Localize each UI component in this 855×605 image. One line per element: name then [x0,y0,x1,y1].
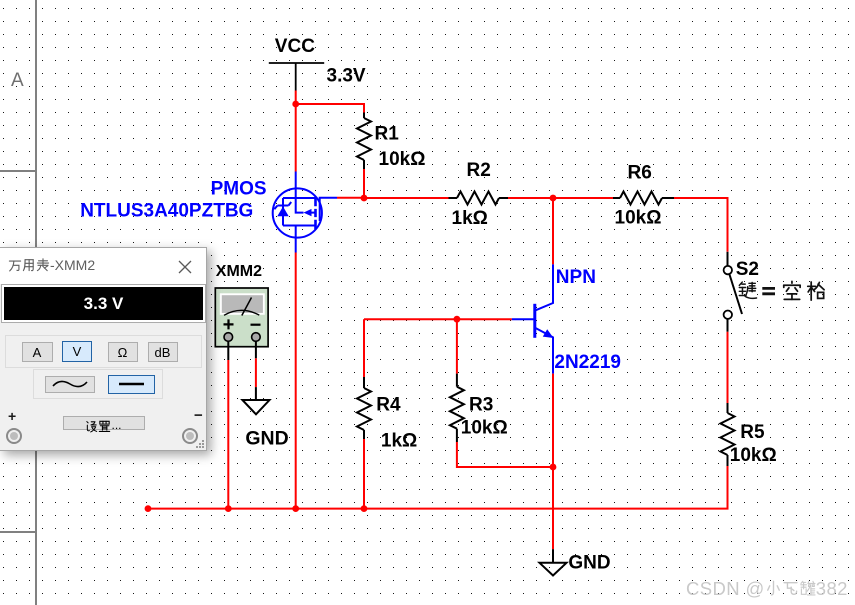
wire NPN collector to node N3 [552,198,554,264]
wire R1 bottom to node N2 [363,169,365,198]
svg-text:R6: R6 [628,162,652,183]
node N5 junction [550,464,557,471]
svg-text:3.3V: 3.3V [327,65,366,86]
resistor R6 [613,192,674,205]
wire R4 bottom to rail [363,439,365,509]
svg-text:10kΩ: 10kΩ [730,445,777,466]
wire node N1 to R1 top [296,104,364,113]
multimeter reading display [2,285,205,322]
node rail R4 [361,505,368,512]
svg-text:NPN: NPN [556,267,596,288]
resistor R5 [721,403,735,466]
wire node N1 down to PMOS source [295,104,297,172]
wire plus probe to rail [227,360,229,509]
wire R4 top [363,319,365,377]
button A [22,342,53,362]
minus terminal label [194,407,203,424]
node N4 junction R3 top [454,316,461,323]
svg-text:1kΩ: 1kΩ [452,208,488,229]
svg-text:R4: R4 [376,395,401,416]
switch S2 [724,252,742,332]
wire base net horizontal [364,318,512,320]
button V selected [62,341,92,362]
ground symbol bottom [540,549,567,575]
resistor R2 [449,192,509,205]
sheet border margin line [35,0,37,605]
wire minus probe to ground [255,358,257,387]
wire node N2 to R2 [364,197,449,199]
wire PMOS gate to node N2 [337,197,364,199]
svg-text:1kΩ: 1kΩ [381,431,417,452]
node N2 junction [361,195,368,202]
svg-text:10kΩ: 10kΩ [379,149,426,170]
svg-text:10kΩ: 10kΩ [615,207,662,228]
resize grip [195,439,204,448]
hidden defs for CJK glyph approximations [0,0,4,4]
svg-text:R3: R3 [469,395,493,416]
NPN emitter arrow [543,329,554,338]
wire PMOS drain to rail [295,253,297,509]
equals sign in key label [762,288,775,293]
wire R5 to bottom rail [148,466,728,509]
dialog close button [178,260,192,274]
ground symbol at multimeter [242,387,269,414]
svg-text:NTLUS3A40PZTBG: NTLUS3A40PZTBG [80,200,253,221]
PMOS body diode arrow [304,209,312,216]
svg-text:XMM2: XMM2 [216,263,262,280]
svg-text:GND: GND [568,553,610,574]
node N3 junction [550,195,557,202]
minus jack radio [182,428,198,444]
button AC [45,376,95,393]
svg-text:R1: R1 [375,124,400,145]
wire S2 to R5 [727,332,729,403]
group box around mode buttons [5,335,202,368]
power symbol VCC [269,63,324,91]
wire R2 to node N3 [508,197,553,199]
multimeter instrument XMM2 icon [215,288,268,347]
svg-text:10kΩ: 10kΩ [461,417,508,438]
wire VCC stub to node N1 [295,91,297,105]
svg-text:R5: R5 [740,422,765,443]
PMOS body diode triangle [277,207,288,217]
svg-text:VCC: VCC [275,36,315,57]
wire R6 to switch S2 [674,198,728,252]
svg-text:PMOS: PMOS [211,179,267,200]
wire NPN emitter to ground [552,374,554,550]
transistor Q1 PMOS [273,172,337,253]
node rail PMOS drain [292,505,299,512]
key label: jian = kongge [739,281,824,300]
dialog title bar [0,248,206,284]
resistor R4 [357,377,371,439]
watermark [686,578,848,600]
node rail left end [145,505,152,512]
resistor R3 [450,374,464,442]
multimeter plus probe lead [227,341,229,360]
transistor Q2 NPN [512,264,553,373]
svg-text:2N2219: 2N2219 [554,352,621,373]
plus terminal label [8,408,16,424]
multimeter dialog XMM2 [0,247,207,451]
svg-text:GND: GND [245,428,288,450]
settings button [63,416,145,430]
svg-text:R2: R2 [467,160,491,181]
group box around waveform buttons [33,369,163,399]
svg-text:S2: S2 [736,259,759,280]
node rail multimeter plus [225,505,232,512]
plus jack radio [6,428,22,444]
button Ohm [108,342,138,362]
node N1 junction [292,101,299,108]
wire R3 top [456,319,458,373]
button dB [148,342,178,362]
multimeter minus probe lead [255,341,257,358]
wire node N3 to R6 [553,197,613,199]
button DC selected [108,375,155,394]
wire R3 bottom to node N5 [457,442,553,467]
resistor R1 [357,113,371,170]
